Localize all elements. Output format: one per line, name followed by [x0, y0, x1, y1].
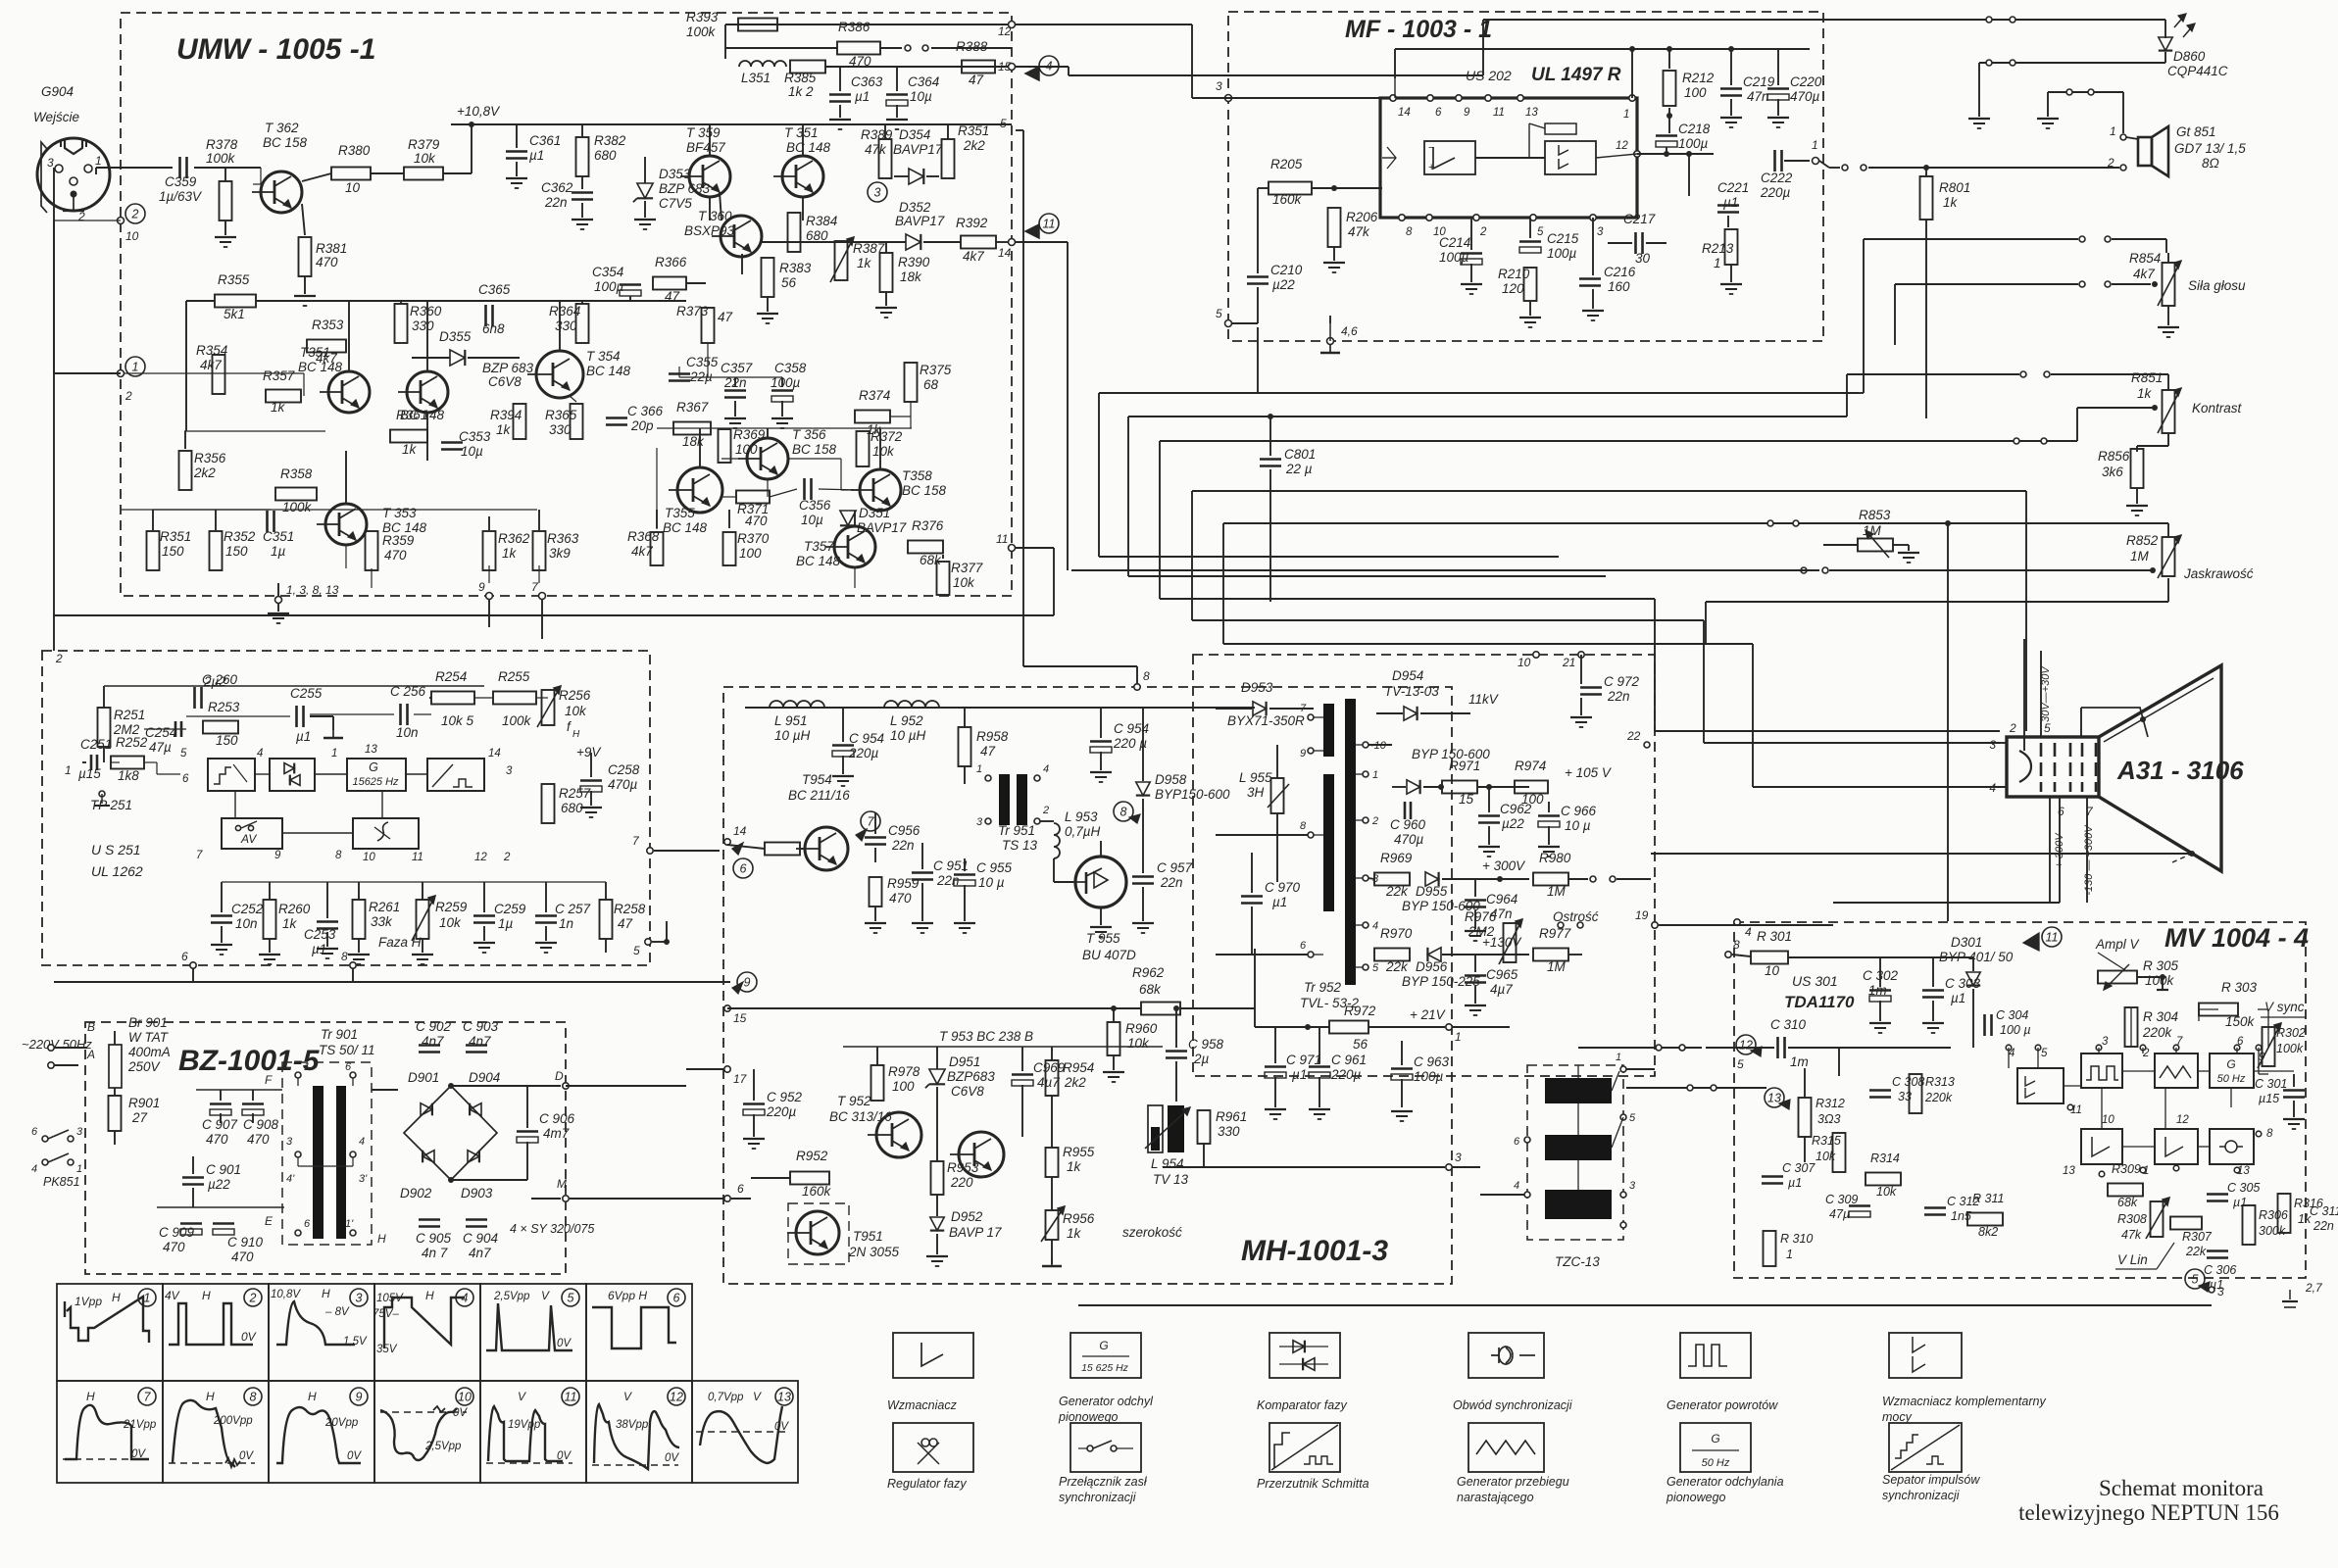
svg-text:Generator przebiegu: Generator przebiegu [1457, 1475, 1569, 1489]
svg-text:0V: 0V [453, 1407, 468, 1419]
svg-text:A: A [86, 1048, 95, 1061]
svg-text:T951: T951 [853, 1229, 883, 1244]
svg-text:5: 5 [2192, 1273, 2199, 1287]
svg-text:C363: C363 [851, 74, 883, 89]
svg-text:C 309: C 309 [1825, 1193, 1858, 1206]
svg-text:100: 100 [739, 546, 762, 561]
svg-text:56: 56 [1353, 1037, 1368, 1052]
svg-text:synchronizacji: synchronizacji [1882, 1489, 1961, 1502]
svg-text:100 µ: 100 µ [2000, 1023, 2031, 1037]
svg-text:R952: R952 [796, 1149, 828, 1163]
svg-text:BYP 401/ 50: BYP 401/ 50 [1939, 950, 2014, 964]
svg-text:C 970: C 970 [1265, 880, 1301, 895]
svg-text:5: 5 [1000, 117, 1007, 130]
svg-text:R308: R308 [2117, 1212, 2147, 1226]
svg-text:T 354: T 354 [586, 349, 621, 364]
svg-text:20p: 20p [630, 418, 654, 433]
svg-text:4: 4 [1372, 920, 1378, 932]
svg-text:56: 56 [781, 275, 797, 290]
svg-text:100µ: 100µ [594, 279, 624, 294]
svg-text:C 906: C 906 [539, 1111, 575, 1126]
svg-text:R 311: R 311 [1972, 1192, 2004, 1205]
svg-text:G: G [369, 760, 378, 774]
svg-text:47k: 47k [2121, 1228, 2142, 1242]
svg-text:A31 - 3106: A31 - 3106 [2116, 756, 2244, 785]
svg-text:R856: R856 [2098, 449, 2130, 464]
svg-text:C 257: C 257 [555, 902, 591, 916]
svg-text:BAVP17: BAVP17 [893, 142, 943, 157]
svg-text:15: 15 [733, 1011, 747, 1025]
svg-text:10µ: 10µ [910, 89, 932, 104]
svg-text:C357: C357 [721, 361, 753, 375]
svg-text:R974: R974 [1515, 759, 1546, 773]
svg-text:1k8: 1k8 [118, 768, 139, 783]
svg-text:BC 148: BC 148 [796, 554, 841, 568]
svg-text:V: V [753, 1390, 762, 1403]
svg-text:µ1: µ1 [296, 729, 311, 744]
svg-text:F: F [265, 1073, 273, 1087]
svg-text:1: 1 [1372, 769, 1378, 781]
svg-text:C 951: C 951 [933, 858, 969, 873]
svg-text:R851: R851 [2131, 370, 2163, 385]
svg-text:T 360: T 360 [698, 209, 732, 223]
svg-text:Jaskrawość: Jaskrawość [2183, 566, 2254, 581]
svg-text:38Vpp: 38Vpp [616, 1419, 649, 1431]
svg-text:47k: 47k [865, 142, 887, 157]
svg-text:4V: 4V [165, 1289, 180, 1302]
svg-text:8: 8 [341, 950, 348, 963]
svg-text:R969: R969 [1380, 851, 1413, 865]
svg-text:C216: C216 [1604, 265, 1636, 279]
svg-text:R366: R366 [655, 255, 687, 269]
svg-text:·10: ·10 [1370, 740, 1387, 752]
svg-text:22n: 22n [1607, 689, 1630, 704]
svg-text:R392: R392 [956, 216, 988, 230]
svg-text:100µ: 100µ [1439, 250, 1469, 265]
svg-text:R376: R376 [912, 518, 944, 533]
svg-text:9: 9 [744, 976, 751, 990]
svg-text:C 903: C 903 [463, 1019, 499, 1034]
svg-text:Sepator impulsów: Sepator impulsów [1882, 1473, 1980, 1487]
svg-text:D355: D355 [439, 329, 472, 344]
svg-text:Generator odchyl: Generator odchyl [1059, 1395, 1154, 1408]
svg-text:C6V8: C6V8 [951, 1084, 984, 1099]
svg-text:4k7: 4k7 [963, 249, 984, 264]
svg-text:21: 21 [1562, 656, 1575, 669]
svg-text:R976: R976 [1465, 909, 1497, 924]
svg-text:R357: R357 [263, 368, 295, 383]
svg-text:6: 6 [181, 950, 188, 963]
svg-text:D956: D956 [1416, 959, 1448, 974]
svg-text:3: 3 [1629, 1180, 1636, 1192]
svg-text:14: 14 [1398, 107, 1411, 119]
svg-text:D953: D953 [1241, 680, 1273, 695]
svg-text:100k: 100k [2145, 973, 2175, 988]
svg-text:D353: D353 [659, 167, 691, 181]
svg-text:~220V 50Hz: ~220V 50Hz [22, 1037, 92, 1052]
svg-text:150k: 150k [2225, 1014, 2256, 1029]
svg-text:100k: 100k [686, 24, 717, 39]
svg-text:0V: 0V [241, 1330, 257, 1344]
svg-text:C 971: C 971 [1286, 1053, 1321, 1067]
svg-text:1M: 1M [1547, 884, 1567, 899]
svg-text:10n: 10n [396, 725, 419, 740]
svg-text:V: V [541, 1289, 550, 1302]
svg-text:2k2: 2k2 [1064, 1075, 1086, 1090]
svg-text:2: 2 [2009, 721, 2016, 735]
svg-text:R362: R362 [498, 531, 530, 546]
svg-text:Kontrast: Kontrast [2192, 401, 2243, 416]
svg-text:BAVP17: BAVP17 [895, 214, 945, 228]
svg-text:BC 313/16: BC 313/16 [829, 1109, 892, 1124]
svg-text:200Vpp: 200Vpp [213, 1415, 253, 1427]
svg-text:47k: 47k [1348, 224, 1370, 239]
svg-text:75V–: 75V– [373, 1308, 399, 1320]
svg-text:C221: C221 [1717, 180, 1749, 195]
svg-text:0V: 0V [557, 1450, 572, 1462]
svg-text:H: H [425, 1289, 434, 1302]
svg-text:22n: 22n [891, 838, 915, 853]
svg-text:R355: R355 [218, 272, 250, 287]
svg-text:10k: 10k [872, 444, 895, 459]
svg-text:C 955: C 955 [976, 860, 1013, 875]
svg-text:R801: R801 [1939, 180, 1970, 195]
svg-text:11kV: 11kV [1468, 692, 1500, 707]
svg-text:4: 4 [1514, 1180, 1519, 1192]
svg-text:8: 8 [250, 1391, 257, 1404]
svg-text:8: 8 [335, 850, 342, 861]
svg-text:0,7Vpp: 0,7Vpp [708, 1392, 744, 1403]
svg-text:R213: R213 [1702, 241, 1734, 256]
svg-text:pionowego: pionowego [1666, 1491, 1726, 1504]
svg-text:220k: 220k [2142, 1025, 2173, 1040]
svg-text:GD7 13/ 1,5: GD7 13/ 1,5 [2174, 141, 2246, 156]
svg-text:2k2: 2k2 [963, 138, 985, 153]
svg-text:8k2: 8k2 [1978, 1225, 1998, 1239]
svg-text:1k: 1k [496, 422, 512, 437]
svg-text:BC 148: BC 148 [786, 140, 831, 155]
svg-text:R980: R980 [1539, 851, 1571, 865]
svg-text:100k: 100k [206, 151, 236, 166]
svg-text:R961: R961 [1216, 1109, 1247, 1124]
svg-text:13: 13 [1525, 107, 1538, 119]
svg-text:TZC-13: TZC-13 [1555, 1254, 1600, 1269]
svg-text:4n7: 4n7 [469, 1246, 491, 1260]
svg-text:R 303: R 303 [2221, 980, 2258, 995]
svg-text:Tr 952: Tr 952 [1304, 980, 1342, 995]
svg-text:µ1: µ1 [529, 148, 544, 163]
svg-text:R381: R381 [316, 241, 347, 256]
svg-text:C 909: C 909 [159, 1225, 195, 1240]
svg-text:C 311: C 311 [2310, 1204, 2338, 1218]
svg-text:2: 2 [503, 852, 511, 863]
svg-text:4: 4 [359, 1136, 365, 1148]
svg-text:6: 6 [1300, 940, 1307, 952]
svg-text:2: 2 [131, 208, 139, 221]
svg-text:1k: 1k [1943, 195, 1959, 210]
svg-text:47: 47 [665, 289, 680, 304]
svg-text:8Ω: 8Ω [2202, 156, 2219, 171]
svg-text:8: 8 [1300, 820, 1307, 832]
svg-text:R351: R351 [160, 529, 191, 544]
svg-text:220µ: 220µ [848, 746, 879, 760]
svg-text:C259: C259 [494, 902, 526, 916]
svg-text:18k: 18k [682, 434, 705, 449]
svg-text:R962: R962 [1132, 965, 1165, 980]
svg-text:-130 — +300V: -130 — +300V [2083, 824, 2095, 896]
svg-text:W TAT: W TAT [128, 1030, 170, 1045]
svg-text:szerokość: szerokość [1122, 1225, 1182, 1240]
svg-text:D954: D954 [1392, 668, 1423, 683]
svg-text:R351: R351 [958, 123, 989, 138]
svg-text:C 972: C 972 [1604, 674, 1640, 689]
svg-text:3Ω3: 3Ω3 [1817, 1112, 1840, 1126]
svg-text:220µ: 220µ [766, 1104, 797, 1119]
svg-text:9: 9 [2259, 1052, 2265, 1063]
svg-text:3: 3 [1989, 738, 1996, 752]
svg-text:R258: R258 [614, 902, 646, 916]
svg-text:19Vpp: 19Vpp [508, 1419, 541, 1431]
svg-text:R394: R394 [490, 408, 522, 422]
svg-text:µ1: µ1 [1723, 195, 1738, 210]
svg-text:8: 8 [1733, 938, 1740, 952]
svg-text:R360: R360 [410, 304, 442, 318]
svg-text:6: 6 [1435, 107, 1442, 119]
svg-text:R853: R853 [1859, 508, 1891, 522]
svg-text:Regulator fazy: Regulator fazy [887, 1477, 967, 1491]
svg-text:CQP441C: CQP441C [2167, 64, 2228, 78]
svg-text:C359: C359 [165, 174, 197, 189]
svg-text:Obwód synchronizacji: Obwód synchronizacji [1453, 1398, 1573, 1412]
svg-text:10: 10 [345, 180, 361, 195]
svg-text:0,7µH: 0,7µH [1065, 824, 1101, 839]
svg-text:2: 2 [1371, 815, 1378, 827]
svg-text:1: 1 [1455, 1030, 1462, 1044]
svg-text:BZP683: BZP683 [947, 1069, 995, 1084]
svg-text:C 306: C 306 [2204, 1263, 2236, 1277]
svg-text:1: 1 [1786, 1248, 1793, 1261]
svg-text:H: H [377, 1232, 386, 1246]
svg-text:47: 47 [618, 916, 633, 931]
svg-text:C 963: C 963 [1414, 1054, 1450, 1069]
svg-text:G: G [1711, 1432, 1719, 1445]
svg-text:6Vpp H: 6Vpp H [608, 1289, 647, 1302]
svg-text:330: 330 [1218, 1124, 1240, 1139]
svg-text:T 356: T 356 [792, 427, 826, 442]
svg-text:D903: D903 [461, 1186, 493, 1200]
svg-text:3': 3' [359, 1173, 368, 1185]
svg-text:7: 7 [868, 815, 875, 829]
svg-text:C355: C355 [686, 355, 719, 369]
svg-text:L 953: L 953 [1065, 809, 1098, 824]
svg-text:9: 9 [1464, 107, 1470, 119]
svg-text:5: 5 [1372, 962, 1379, 974]
svg-text:680: 680 [594, 148, 617, 163]
svg-text:C218: C218 [1678, 122, 1711, 136]
svg-text:C362: C362 [541, 180, 573, 195]
svg-text:8: 8 [2266, 1128, 2273, 1140]
svg-text:22n: 22n [1160, 875, 1183, 890]
svg-text:pionowego: pionowego [1058, 1410, 1119, 1424]
svg-text:−: − [1428, 142, 1434, 154]
svg-text:400mA: 400mA [128, 1045, 171, 1059]
svg-text:R377: R377 [951, 561, 983, 575]
svg-text:H: H [572, 729, 580, 740]
svg-text:4m7: 4m7 [543, 1126, 570, 1141]
svg-text:D952: D952 [951, 1209, 983, 1224]
svg-text:C 961: C 961 [1331, 1053, 1367, 1067]
svg-text:330: 330 [555, 318, 577, 333]
svg-text:5: 5 [633, 944, 640, 957]
svg-text:R375: R375 [920, 363, 952, 377]
svg-text:10: 10 [1765, 963, 1780, 978]
svg-text:1k: 1k [1067, 1226, 1082, 1241]
svg-text:470µ: 470µ [1394, 832, 1424, 847]
svg-text:10k: 10k [1127, 1036, 1150, 1051]
svg-text:µ15: µ15 [2259, 1092, 2279, 1105]
svg-text:mocy: mocy [1882, 1410, 1913, 1424]
svg-text:R389: R389 [861, 127, 893, 142]
svg-text:4': 4' [286, 1173, 295, 1185]
svg-text:narastającego: narastającego [1457, 1491, 1534, 1504]
svg-text:0V: 0V [239, 1450, 254, 1462]
svg-text:1k: 1k [2137, 386, 2153, 401]
svg-text:11: 11 [1043, 218, 1056, 231]
svg-text:L 952: L 952 [890, 713, 923, 728]
svg-text:9: 9 [274, 850, 281, 861]
svg-text:C258: C258 [608, 762, 640, 777]
svg-text:T 952: T 952 [837, 1094, 871, 1108]
svg-text:12: 12 [2176, 1114, 2189, 1126]
svg-text:R 305: R 305 [2143, 958, 2179, 973]
svg-text:R352: R352 [224, 529, 256, 544]
svg-text:R302: R302 [2276, 1026, 2306, 1040]
svg-text:9: 9 [1300, 748, 1306, 759]
svg-text:470µ: 470µ [1790, 89, 1820, 104]
svg-text:R312: R312 [1816, 1097, 1845, 1110]
svg-text:1, 3, 8, 13: 1, 3, 8, 13 [286, 583, 339, 597]
svg-text:R373: R373 [676, 304, 709, 318]
svg-text:10µ: 10µ [801, 513, 823, 527]
svg-text:3: 3 [874, 186, 881, 200]
svg-text:6: 6 [182, 773, 189, 785]
svg-text:1µ: 1µ [271, 544, 286, 559]
svg-text:D354: D354 [899, 127, 930, 142]
svg-text:0V: 0V [557, 1338, 572, 1349]
svg-text:UMW - 1005 -1: UMW - 1005 -1 [176, 33, 375, 66]
svg-text:100: 100 [892, 1079, 915, 1094]
svg-text:330: 330 [412, 318, 434, 333]
svg-text:4: 4 [462, 1292, 469, 1305]
svg-text:G904: G904 [41, 84, 74, 99]
svg-text:C965: C965 [1486, 967, 1518, 982]
svg-text:2: 2 [77, 210, 85, 223]
svg-text:4: 4 [1989, 781, 1996, 795]
svg-text:T355: T355 [665, 506, 695, 520]
svg-text:Wzmacniacz komplementarny: Wzmacniacz komplementarny [1882, 1395, 2046, 1408]
svg-text:R901: R901 [128, 1096, 160, 1110]
svg-text:R359: R359 [382, 533, 415, 548]
svg-text:C 910: C 910 [227, 1235, 264, 1249]
svg-text:Wzmacniacz: Wzmacniacz [887, 1398, 958, 1412]
svg-text:R358: R358 [280, 466, 313, 481]
svg-text:470: 470 [163, 1240, 185, 1254]
svg-text:2µ2: 2µ2 [203, 674, 226, 689]
svg-text:R363: R363 [547, 531, 579, 546]
svg-text:R257: R257 [559, 786, 591, 801]
svg-text:220µ: 220µ [1760, 185, 1791, 200]
svg-text:R380: R380 [338, 143, 371, 158]
svg-text:+: + [1428, 162, 1434, 173]
svg-text:µ1: µ1 [2233, 1196, 2247, 1209]
svg-text:Gt 851: Gt 851 [2176, 124, 2216, 139]
svg-text:R971: R971 [1449, 759, 1480, 773]
svg-text:2: 2 [1479, 226, 1487, 238]
svg-text:C254: C254 [145, 725, 176, 740]
svg-text:BF457: BF457 [686, 140, 725, 155]
svg-text:4: 4 [257, 748, 263, 759]
svg-text:R307: R307 [2182, 1230, 2213, 1244]
svg-text:160k: 160k [1272, 192, 1303, 207]
svg-text:C 954: C 954 [849, 731, 884, 746]
svg-text:T 359: T 359 [686, 125, 721, 140]
svg-text:3: 3 [47, 156, 54, 170]
svg-text:10k: 10k [1876, 1185, 1897, 1199]
svg-text:150: 150 [162, 544, 184, 559]
svg-text:1m: 1m [1868, 983, 1887, 998]
svg-text:telewizyjnego NEPTUN 156: telewizyjnego NEPTUN 156 [2018, 1500, 2279, 1525]
svg-text:R261: R261 [369, 900, 400, 914]
svg-text:1: 1 [2110, 124, 2116, 138]
svg-text:4µ7: 4µ7 [1037, 1075, 1060, 1090]
svg-text:0V: 0V [665, 1452, 679, 1464]
svg-text:47: 47 [969, 73, 984, 87]
svg-text:R315: R315 [1812, 1134, 1841, 1148]
svg-text:µ1: µ1 [855, 89, 870, 104]
svg-text:3H: 3H [1247, 785, 1265, 800]
svg-text:1: 1 [132, 361, 139, 374]
svg-text:15: 15 [1459, 792, 1474, 807]
svg-text:+ 105 V: + 105 V [1565, 765, 1613, 780]
svg-text:19: 19 [1635, 908, 1649, 922]
svg-text:C 902: C 902 [416, 1019, 452, 1034]
svg-text:R306: R306 [2259, 1208, 2288, 1222]
svg-text:1µ: 1µ [498, 916, 514, 931]
svg-text:C 960: C 960 [1390, 817, 1426, 832]
svg-text:470: 470 [745, 514, 768, 528]
svg-text:C354: C354 [592, 265, 623, 279]
svg-text:synchronizacji: synchronizacji [1059, 1491, 1137, 1504]
svg-text:10 µH: 10 µH [774, 728, 811, 743]
svg-text:5k1: 5k1 [224, 307, 245, 321]
svg-text:L 951: L 951 [774, 713, 808, 728]
svg-text:D955: D955 [1416, 884, 1448, 899]
svg-text:1k: 1k [502, 546, 518, 561]
svg-text:11: 11 [565, 1391, 577, 1404]
svg-text:10: 10 [363, 852, 375, 863]
svg-text:D951: D951 [949, 1054, 980, 1069]
svg-text:C 310: C 310 [1770, 1017, 1807, 1032]
svg-text:160: 160 [1608, 279, 1630, 294]
svg-text:100µ: 100µ [1547, 246, 1577, 261]
svg-text:250V: 250V [127, 1059, 162, 1074]
svg-text:T 353: T 353 [382, 506, 417, 520]
svg-text:4: 4 [1745, 925, 1752, 939]
svg-text:C 304: C 304 [1996, 1008, 2028, 1022]
svg-text:TS 13: TS 13 [1002, 838, 1038, 853]
svg-text:50 Hz: 50 Hz [2217, 1073, 2246, 1085]
svg-text:Przerzutnik Schmitta: Przerzutnik Schmitta [1257, 1477, 1369, 1491]
